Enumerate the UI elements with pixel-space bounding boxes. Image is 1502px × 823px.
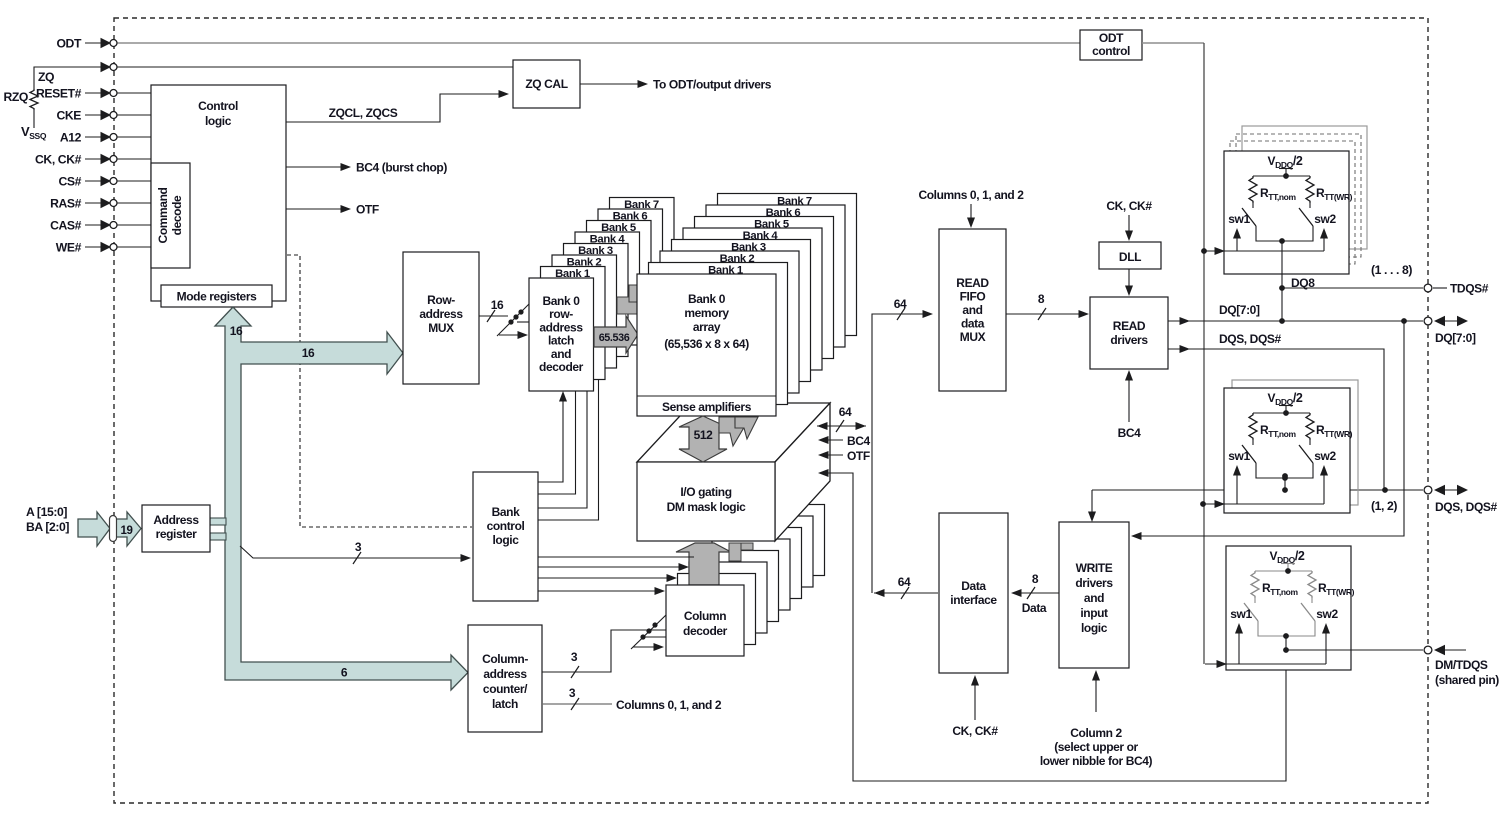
termination cell 3 bottom rail [1258, 621, 1315, 639]
wire OTF into I/O gating [818, 451, 843, 459]
block Command decode [151, 163, 190, 268]
labels bank latch stack [555, 199, 659, 280]
block Bank control logic [473, 472, 538, 601]
switch arrow sw2 cell 2 [1320, 465, 1328, 504]
wire DQS from READ drivers [1168, 345, 1384, 490]
junction DQ8 on DQ line [1279, 318, 1285, 324]
switch arrow sw2 cell 1 [1320, 228, 1328, 251]
wire ODT enable into cell 3 [1205, 663, 1326, 665]
block Row-address MUX [403, 252, 479, 384]
svg-text:data: data [961, 317, 985, 331]
svg-text:8: 8 [1032, 572, 1039, 586]
wire DQS to WRITE drivers [1088, 490, 1096, 522]
bus lightning arrow fragment 2 [735, 417, 758, 439]
bus fragment stacked gray arrow right2 [741, 543, 753, 550]
pin A12 input arrow [85, 132, 117, 143]
block Data interface [939, 513, 1008, 673]
wire DLL to READ drivers [1125, 269, 1133, 296]
svg-text:64: 64 [898, 575, 911, 589]
bus stub address register upper [210, 518, 226, 525]
resistor RTT(WR) cell 1 [1306, 176, 1314, 208]
svg-text:Bank: Bank [492, 505, 520, 519]
svg-text:Column 2: Column 2 [1070, 726, 1122, 740]
svg-text:counter/: counter/ [483, 682, 528, 696]
svg-text:logic: logic [205, 114, 232, 128]
block I/O gating DM mask logic [637, 403, 830, 541]
switch sw2 cell 1 [1299, 208, 1313, 226]
svg-text:(select upper or: (select upper or [1054, 740, 1138, 754]
termination cell 2 top rail [1253, 410, 1310, 416]
wire 8 READ FIFO to READ drivers [1006, 308, 1089, 320]
svg-text:CK, CK#: CK, CK# [35, 153, 82, 167]
svg-text:19: 19 [121, 525, 133, 537]
block READ FIFO and data MUX [939, 229, 1006, 391]
svg-text:RAS#: RAS# [50, 197, 82, 211]
wire DQS pad line [1092, 487, 1423, 493]
pin CS# input arrow [85, 176, 117, 187]
svg-text:512: 512 [694, 428, 714, 442]
svg-text:row-: row- [549, 307, 573, 321]
switch arrow sw2 cell 3 [1322, 623, 1330, 664]
pin WE# input arrow [85, 242, 117, 253]
svg-text:Bank 1: Bank 1 [708, 265, 743, 277]
svg-text:BC4 (burst chop): BC4 (burst chop) [356, 161, 447, 175]
pin ZQ input arrow [85, 62, 117, 73]
svg-text:(1 . . . 8): (1 . . . 8) [1371, 263, 1412, 277]
block Bank 0 memory array [637, 274, 776, 416]
arrow ODT enable cell 3 [1217, 660, 1228, 668]
wire 16 row mux to bank0 row latch fanout [479, 303, 530, 339]
svg-text:RESET#: RESET# [36, 87, 82, 101]
slash 3 bank bus [353, 552, 361, 564]
wire bank control to row latch bank0 [538, 391, 567, 482]
svg-text:address: address [483, 667, 527, 681]
svg-text:Bank 3: Bank 3 [578, 245, 613, 257]
termination cell 2 bottom rail [1256, 463, 1313, 481]
switch sw1 cell 1 [1242, 208, 1256, 226]
pin CK, CK# input arrow [85, 154, 117, 165]
svg-text:CK, CK#: CK, CK# [1106, 199, 1152, 213]
wire bank control to row latch bank3 [538, 357, 599, 520]
wires pins to control logic [118, 93, 152, 247]
svg-text:logic: logic [492, 533, 519, 547]
bus 19 arrow into address register [116, 512, 141, 546]
wire cell 3 output [1285, 636, 1287, 650]
svg-text:control: control [487, 519, 525, 533]
svg-text:and: and [962, 303, 982, 317]
svg-text:Bank 0: Bank 0 [688, 292, 726, 306]
svg-text:OTF: OTF [356, 203, 379, 217]
svg-text:lower nibble for BC4): lower nibble for BC4) [1040, 754, 1153, 768]
svg-text:Bank 7: Bank 7 [777, 196, 812, 208]
svg-text:BC4: BC4 [847, 434, 871, 448]
svg-text:DM/TDQS: DM/TDQS [1435, 658, 1488, 672]
wire BC4 burst chop output [286, 163, 351, 171]
svg-text:I/O gating: I/O gating [680, 485, 731, 499]
arrow DM external [1434, 645, 1466, 656]
svg-text:Sense amplifiers: Sense amplifiers [662, 400, 752, 414]
pin CKE input arrow [85, 110, 117, 121]
svg-text:interface: interface [950, 593, 997, 607]
svg-text:Bank 5: Bank 5 [754, 219, 789, 231]
wire ODT control to termination cells [1142, 43, 1204, 664]
bus 512 sense amp to I/O gating arrow [679, 416, 727, 462]
pad DQS [1424, 486, 1432, 494]
svg-text:Data: Data [961, 579, 986, 593]
termination cell 3 VDDQ/2 supply [1270, 549, 1305, 571]
bus 65536 gray arrow [594, 316, 638, 353]
wire DQ pad to WRITE drivers [1131, 318, 1407, 540]
svg-text:Column-: Column- [482, 652, 528, 666]
bus column decoder to I/O gating gray arrow [676, 543, 731, 585]
svg-text:Bank 4: Bank 4 [590, 234, 626, 246]
svg-text:To ODT/output drivers: To ODT/output drivers [653, 78, 772, 92]
wire BC4 to READ drivers [1125, 370, 1133, 422]
svg-text:BC4: BC4 [1118, 426, 1142, 440]
svg-text:WE#: WE# [56, 241, 82, 255]
wire To ODT output drivers [580, 80, 648, 88]
svg-text:DM mask logic: DM mask logic [667, 500, 747, 514]
resistor RTT,nom cell 1 [1249, 176, 1257, 208]
switch sw2 cell 2 [1299, 445, 1313, 463]
bus fragment 65536 arrow bank2 [629, 285, 637, 302]
pad TDQS# [1424, 284, 1432, 292]
wire DM line [1283, 647, 1423, 653]
wire ZQCL ZQCS to ZQ CAL [286, 90, 509, 122]
svg-text:drivers: drivers [1075, 576, 1113, 590]
pin RESET# input arrow [85, 88, 117, 99]
wire DM into I/O gating from DM pad [818, 469, 1286, 781]
svg-text:sw2: sw2 [1314, 449, 1336, 463]
wire 64 bidirectional I/O gating [817, 420, 866, 432]
switch sw2 cell 3 [1301, 603, 1315, 621]
block Bank 0 row-address latch and decoder [529, 278, 594, 391]
svg-text:Row-: Row- [427, 293, 455, 307]
block Column decoder front [666, 585, 744, 656]
termination cell 1 stacked outline dashed outer [1236, 134, 1361, 257]
block ZQ CAL [513, 60, 580, 108]
svg-text:sw1: sw1 [1230, 607, 1252, 621]
svg-text:(65,536 x 8 x 64): (65,536 x 8 x 64) [664, 337, 749, 351]
bus fragment stacked gray arrow right1 [729, 543, 741, 561]
svg-text:array: array [693, 320, 721, 334]
bus lightning arrow fragment 1 [719, 417, 746, 446]
pad DQ [1424, 317, 1432, 325]
svg-text:drivers: drivers [1110, 333, 1148, 347]
wire ODT enable into cell 2 [1203, 503, 1324, 505]
svg-text:DQS, DQS#: DQS, DQS# [1435, 500, 1497, 514]
svg-text:Address: Address [153, 513, 199, 527]
svg-text:A [15:0]: A [15:0] [26, 505, 67, 519]
svg-text:CK, CK#: CK, CK# [952, 724, 998, 738]
svg-text:RZQ: RZQ [3, 90, 28, 104]
wire bank control to column decoder line4 [538, 587, 665, 595]
block Bank memory array stack [649, 194, 857, 405]
svg-text:16: 16 [302, 346, 315, 360]
svg-text:DQS, DQS#: DQS, DQS# [1219, 332, 1281, 346]
wire cell 1 output [1281, 241, 1283, 321]
arrow DQS bidirectional external [1434, 485, 1468, 496]
svg-text:Control: Control [198, 99, 238, 113]
svg-text:Bank 1: Bank 1 [555, 268, 590, 280]
svg-text:sw2: sw2 [1316, 607, 1338, 621]
svg-text:Columns 0, 1, and 2: Columns 0, 1, and 2 [616, 698, 722, 712]
wire TDQS# line [1279, 285, 1423, 291]
svg-text:64: 64 [839, 405, 852, 419]
block READ drivers [1090, 297, 1168, 369]
bus stub address register lower [210, 533, 226, 540]
wire ODT to ODT control [118, 42, 1081, 44]
svg-text:Bank 7: Bank 7 [624, 199, 659, 211]
svg-text:register: register [156, 527, 198, 541]
block Control logic [151, 85, 286, 301]
svg-text:and: and [1084, 591, 1104, 605]
svg-text:(1, 2): (1, 2) [1371, 499, 1397, 513]
svg-text:Bank 3: Bank 3 [731, 242, 766, 254]
junction ODT cell 1 [1201, 248, 1207, 254]
svg-text:ZQ CAL: ZQ CAL [525, 77, 567, 91]
resistor RTT(WR) cell 2 [1306, 413, 1314, 445]
bus fragment 65536 arrow bank1 [617, 297, 637, 314]
wire bank control to row latch bank2 [538, 368, 587, 508]
switch sw1 cell 3 [1244, 603, 1258, 621]
dashed wire control logic to bank control logic [287, 255, 472, 527]
svg-text:Bank 2: Bank 2 [720, 253, 755, 265]
termination cell 1 box [1224, 151, 1349, 274]
svg-text:Bank 4: Bank 4 [743, 230, 779, 242]
wire 64 write from data interface [874, 589, 938, 597]
svg-text:latch: latch [548, 334, 574, 348]
wire CK to DLL [1125, 215, 1133, 241]
wire bank control to column decoder line1 [538, 556, 694, 558]
svg-text:FIFO: FIFO [960, 290, 986, 304]
wire TDQS# external [1433, 287, 1447, 289]
svg-text:ZQ: ZQ [38, 70, 54, 84]
svg-text:DQ[7:0]: DQ[7:0] [1435, 331, 1476, 345]
termination cell 1 stacked outline dashed inner [1230, 141, 1355, 264]
svg-text:ZQCL, ZQCS: ZQCL, ZQCS [329, 106, 398, 120]
svg-text:WRITE: WRITE [1076, 561, 1113, 575]
svg-text:MUX: MUX [960, 330, 986, 344]
resistor RTT,nom cell 3 [1251, 571, 1259, 603]
block DLL [1099, 242, 1161, 269]
svg-text:Column: Column [684, 609, 726, 623]
switch sw1 cell 2 [1242, 445, 1256, 463]
arrow ODT enable cell 1 [1215, 247, 1226, 255]
termination cell 1 top rail [1253, 173, 1310, 179]
svg-text:16: 16 [491, 298, 504, 312]
arrow DQ bidirectional external [1434, 316, 1468, 327]
wire 3 address register to bank control logic [240, 546, 471, 562]
pad DM [1424, 646, 1432, 654]
svg-text:logic: logic [1081, 621, 1108, 635]
arrow 64 into READ FIFO [923, 310, 934, 318]
svg-text:(shared pin): (shared pin) [1435, 673, 1499, 687]
svg-text:8: 8 [1038, 292, 1045, 306]
switch arrow sw1 cell 3 [1235, 623, 1243, 664]
svg-text:CAS#: CAS# [50, 219, 82, 233]
termination cell 1 VDDQ/2 supply [1268, 154, 1303, 176]
label DM/TDQS external [1435, 658, 1499, 687]
svg-text:16: 16 [230, 324, 243, 338]
wire cell 2 to DQS line [1282, 473, 1288, 493]
svg-text:Mode registers: Mode registers [177, 290, 257, 304]
pin CAS# input arrow [85, 220, 117, 231]
wire bank control to column decoder line2 [538, 563, 689, 571]
bus A BA input arrow [78, 512, 110, 546]
svg-text:ODT: ODT [56, 37, 81, 51]
svg-text:address: address [419, 307, 463, 321]
termination cell 1 stacked outline solid [1242, 126, 1367, 249]
wire CK to data interface [971, 675, 979, 720]
svg-text:DLL: DLL [1119, 250, 1141, 264]
svg-text:sw1: sw1 [1228, 212, 1250, 226]
svg-text:memory: memory [684, 306, 729, 320]
svg-text:OTF: OTF [847, 449, 870, 463]
wire 3 columns 012 output [542, 698, 612, 710]
termination cell 2 box [1224, 388, 1350, 513]
termination cell 2 VDDQ/2 supply [1268, 391, 1303, 413]
switch arrow sw1 cell 1 [1233, 228, 1241, 251]
wire bank control to row latch bank1 [538, 380, 576, 494]
boundary capsule on address bus [110, 516, 117, 542]
svg-text:decode: decode [170, 195, 184, 235]
block Mode registers [161, 285, 272, 307]
resistor RTT,nom cell 2 [1249, 413, 1257, 445]
block ODT control [1080, 30, 1142, 60]
svg-text:DQ[7:0]: DQ[7:0] [1219, 303, 1260, 317]
junction ODT cell 2 [1200, 501, 1206, 507]
svg-text:3: 3 [571, 650, 578, 664]
svg-text:CS#: CS# [58, 175, 81, 189]
svg-text:READ: READ [956, 276, 989, 290]
wire 64 read vertical [872, 314, 925, 593]
termination cell 3 box [1226, 546, 1351, 670]
svg-text:BA [2:0]: BA [2:0] [26, 520, 69, 534]
svg-text:CKE: CKE [56, 109, 81, 123]
svg-text:Command: Command [156, 187, 170, 243]
wire 3 column counter to column decoder [542, 615, 666, 678]
svg-text:Columns 0, 1, and 2: Columns 0, 1, and 2 [918, 188, 1024, 202]
wire cell 2 output [1284, 476, 1286, 478]
block Bank row-address latch stack [541, 198, 675, 380]
termination cell 2 stacked outline [1232, 380, 1358, 505]
svg-text:MUX: MUX [428, 321, 454, 335]
svg-text:Data: Data [1022, 601, 1047, 615]
wire ZQ from RZQ to pin [34, 67, 105, 89]
slash 64 read [897, 308, 905, 320]
wire DQ from READ drivers to DQ pad [1168, 317, 1423, 325]
svg-text:sw1: sw1 [1228, 449, 1250, 463]
wire ZQ to ZQ CAL [118, 66, 514, 68]
svg-text:input: input [1080, 606, 1108, 620]
svg-text:3: 3 [569, 686, 576, 700]
wire BC4 into I/O gating [818, 436, 843, 444]
svg-text:Bank 6: Bank 6 [613, 211, 648, 223]
termination cell 1 bottom rail [1256, 226, 1313, 244]
termination cell 3 top rail [1255, 568, 1312, 574]
block Address register [142, 505, 210, 552]
bus address register to mode registers and row mux and column counter [215, 307, 468, 690]
svg-text:sw2: sw2 [1314, 212, 1336, 226]
svg-text:READ: READ [1113, 319, 1146, 333]
svg-text:Bank 6: Bank 6 [766, 207, 801, 219]
svg-text:65.536: 65.536 [599, 332, 630, 344]
svg-text:A12: A12 [60, 131, 82, 145]
svg-text:control: control [1092, 44, 1130, 58]
resistor RZQ [30, 89, 38, 110]
labels bank memory stack [708, 196, 812, 277]
svg-text:decoder: decoder [683, 624, 728, 638]
svg-text:latch: latch [492, 697, 518, 711]
pin ODT input arrow [85, 38, 117, 49]
wire Column 2 to WRITE drivers [1092, 670, 1100, 712]
wire columns to READ FIFO [967, 204, 975, 228]
svg-text:6: 6 [341, 666, 348, 680]
resistor RTT(WR) cell 3 [1308, 571, 1316, 603]
svg-text:Bank 5: Bank 5 [601, 222, 636, 234]
svg-text:address: address [539, 320, 583, 334]
svg-text:and: and [551, 347, 571, 361]
wire OTF output [286, 205, 351, 213]
svg-text:Bank 0: Bank 0 [543, 294, 581, 308]
label Column 2 select [1040, 726, 1153, 768]
wire RZQ to VSSQ [33, 110, 35, 128]
svg-text:TDQS#: TDQS# [1450, 282, 1489, 296]
wire bank control to column decoder line3 [538, 574, 677, 582]
arrow ODT enable cell 2 [1215, 500, 1226, 508]
block Column-address counter/latch [468, 625, 542, 732]
block WRITE drivers and input logic [1059, 522, 1129, 668]
switch arrow sw1 cell 2 [1233, 465, 1241, 504]
svg-text:ODT: ODT [1099, 31, 1124, 45]
wire 8 Data write drivers to data interface [1011, 587, 1059, 599]
svg-text:Bank 2: Bank 2 [567, 257, 602, 269]
slash 64 write [901, 587, 909, 599]
pin RAS# input arrow [85, 198, 117, 209]
svg-text:decoder: decoder [539, 360, 584, 374]
wire ODT enable into cell 1 [1203, 250, 1324, 252]
block Column decoder bank stack [678, 505, 825, 645]
